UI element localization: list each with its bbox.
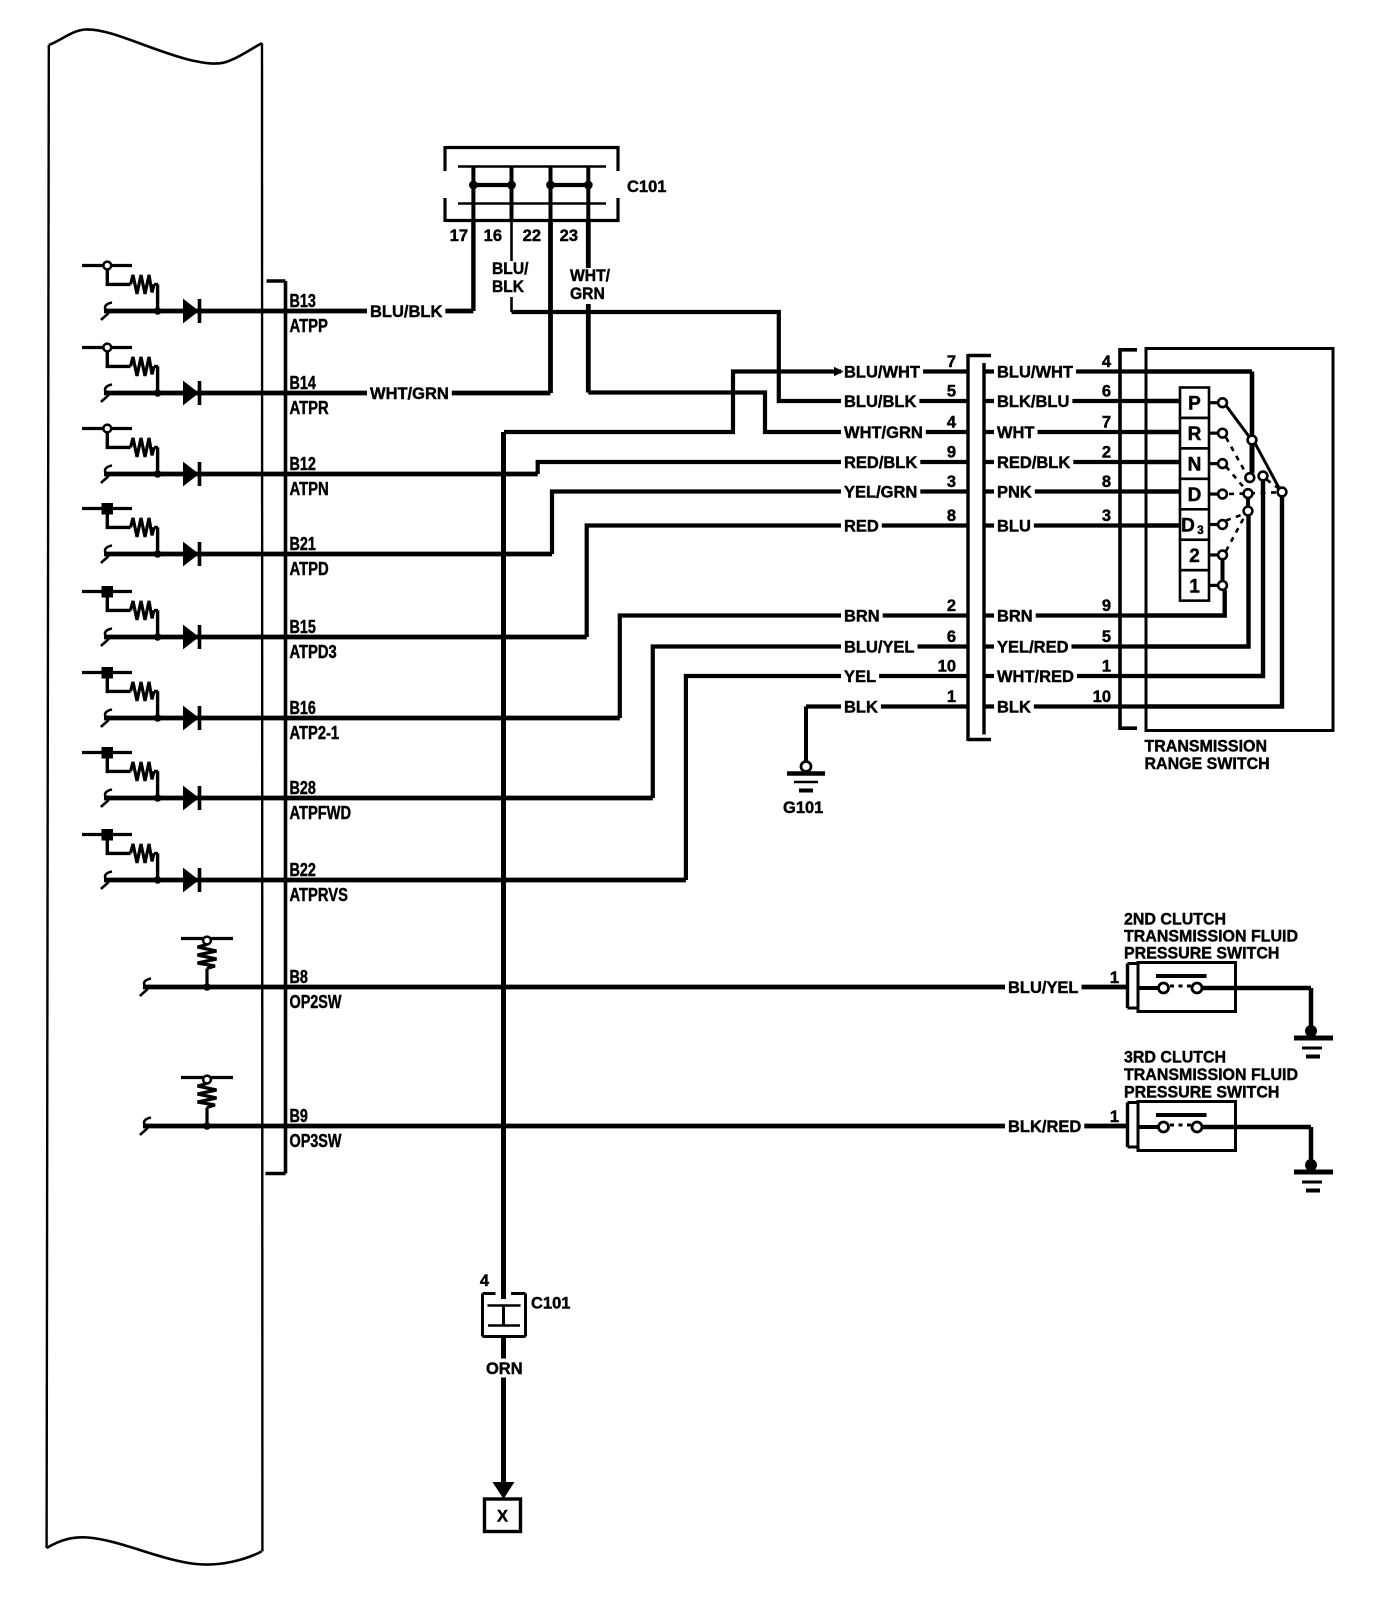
svg-text:BLU/BLK: BLU/BLK (370, 302, 443, 321)
svg-text:R: R (1188, 424, 1202, 445)
svg-text:2: 2 (1189, 546, 1200, 567)
svg-text:10: 10 (938, 658, 956, 676)
svg-text:8: 8 (1102, 473, 1111, 491)
svg-text:7: 7 (1102, 414, 1111, 432)
svg-text:WHT: WHT (997, 423, 1035, 442)
svg-text:G101: G101 (783, 799, 823, 817)
svg-text:RED/BLK: RED/BLK (997, 453, 1071, 472)
svg-text:B21: B21 (290, 534, 316, 554)
svg-text:BLU/WHT: BLU/WHT (844, 363, 921, 382)
svg-text:ATPFWD: ATPFWD (290, 803, 352, 823)
svg-text:4: 4 (480, 1272, 490, 1290)
svg-text:PRESSURE SWITCH: PRESSURE SWITCH (1124, 1083, 1279, 1102)
svg-text:WHT/GRN: WHT/GRN (370, 384, 449, 403)
svg-text:TRANSMISSION: TRANSMISSION (1145, 737, 1268, 756)
svg-text:3: 3 (1102, 507, 1111, 525)
svg-text:BLU/WHT: BLU/WHT (997, 363, 1074, 382)
svg-text:BLU/: BLU/ (492, 259, 529, 278)
svg-text:B22: B22 (290, 860, 316, 880)
svg-text:ATPP: ATPP (290, 316, 328, 336)
svg-text:GRN: GRN (570, 284, 605, 303)
svg-text:RED/BLK: RED/BLK (844, 453, 918, 472)
svg-text:23: 23 (560, 227, 578, 245)
svg-text:17: 17 (450, 227, 468, 245)
svg-text:3RD CLUTCH: 3RD CLUTCH (1124, 1048, 1226, 1067)
svg-text:BRN: BRN (844, 607, 880, 626)
svg-text:B12: B12 (290, 454, 316, 474)
svg-text:X: X (497, 1508, 508, 1526)
svg-text:B15: B15 (290, 617, 316, 637)
svg-text:B16: B16 (290, 698, 316, 718)
svg-text:4: 4 (1102, 353, 1112, 371)
svg-text:7: 7 (947, 353, 956, 371)
svg-text:D: D (1181, 516, 1195, 537)
svg-text:BLU/BLK: BLU/BLK (844, 392, 917, 411)
svg-text:ORN: ORN (486, 1359, 523, 1378)
svg-text:WHT/GRN: WHT/GRN (844, 423, 923, 442)
svg-text:3: 3 (947, 473, 956, 491)
svg-text:B13: B13 (290, 291, 316, 311)
svg-text:9: 9 (947, 444, 956, 462)
svg-text:ATPD: ATPD (290, 559, 329, 579)
svg-text:5: 5 (1102, 628, 1111, 646)
svg-text:3: 3 (1197, 525, 1203, 537)
svg-text:OP2SW: OP2SW (290, 992, 342, 1012)
svg-text:22: 22 (523, 227, 541, 245)
svg-text:9: 9 (1102, 597, 1111, 615)
svg-text:BLK: BLK (844, 698, 879, 717)
svg-text:1: 1 (1102, 658, 1111, 676)
svg-text:8: 8 (947, 507, 956, 525)
svg-text:BLU: BLU (997, 517, 1031, 536)
svg-text:6: 6 (947, 628, 956, 646)
svg-text:WHT/RED: WHT/RED (997, 667, 1074, 686)
svg-text:6: 6 (1102, 383, 1111, 401)
svg-text:TRANSMISSION FLUID: TRANSMISSION FLUID (1124, 1065, 1298, 1084)
svg-text:WHT/: WHT/ (570, 266, 610, 285)
svg-text:1: 1 (1110, 969, 1119, 987)
svg-text:BLK/BLU: BLK/BLU (997, 392, 1069, 411)
svg-text:ATP2-1: ATP2-1 (290, 723, 340, 743)
svg-text:BLU/YEL: BLU/YEL (1008, 978, 1079, 997)
svg-text:B9: B9 (290, 1106, 308, 1126)
svg-text:ATPRVS: ATPRVS (290, 885, 348, 905)
svg-text:BRN: BRN (997, 607, 1033, 626)
svg-text:YEL/GRN: YEL/GRN (844, 483, 917, 502)
svg-text:ATPD3: ATPD3 (290, 642, 337, 662)
svg-text:BLK: BLK (997, 698, 1032, 717)
svg-text:YEL/RED: YEL/RED (997, 638, 1069, 657)
svg-text:PNK: PNK (997, 483, 1032, 502)
svg-text:D: D (1188, 485, 1202, 506)
svg-text:ATPN: ATPN (290, 479, 329, 499)
svg-text:PRESSURE SWITCH: PRESSURE SWITCH (1124, 944, 1279, 963)
svg-text:RANGE SWITCH: RANGE SWITCH (1145, 754, 1270, 773)
svg-text:ATPR: ATPR (290, 398, 329, 418)
svg-text:BLU/YEL: BLU/YEL (844, 638, 915, 657)
svg-text:N: N (1188, 455, 1202, 476)
svg-text:YEL: YEL (844, 667, 876, 686)
svg-text:C101: C101 (627, 178, 666, 196)
svg-text:2: 2 (1102, 444, 1111, 462)
svg-text:5: 5 (947, 383, 956, 401)
svg-text:RED: RED (844, 517, 879, 536)
svg-text:OP3SW: OP3SW (290, 1131, 342, 1151)
svg-text:1: 1 (1189, 576, 1200, 597)
svg-text:B14: B14 (290, 373, 316, 393)
svg-text:16: 16 (484, 227, 502, 245)
svg-text:1: 1 (947, 688, 956, 706)
svg-text:P: P (1188, 394, 1201, 415)
svg-text:C101: C101 (531, 1295, 570, 1313)
svg-text:1: 1 (1110, 1108, 1119, 1126)
svg-text:B28: B28 (290, 778, 316, 798)
svg-text:BLK: BLK (492, 277, 525, 296)
svg-text:10: 10 (1093, 688, 1111, 706)
svg-text:B8: B8 (290, 967, 308, 987)
svg-text:BLK/RED: BLK/RED (1008, 1117, 1081, 1136)
svg-text:4: 4 (947, 414, 957, 432)
svg-text:2: 2 (947, 597, 956, 615)
